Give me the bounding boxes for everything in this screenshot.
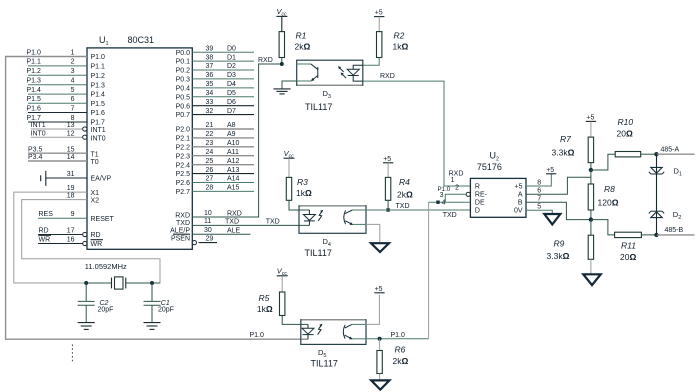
wire A14 stub (pin 27): [192, 182, 254, 184]
svg-text:TIL117: TIL117: [305, 102, 332, 112]
U1 pin 13 bubble: [83, 127, 87, 131]
svg-text:RE-: RE-: [475, 191, 488, 198]
wire crystal right to C1 junction: [126, 282, 160, 284]
svg-text:P1.0: P1.0: [91, 54, 106, 61]
wire EA/VP stub (pin 31): [46, 177, 87, 179]
resistor R9 body: [588, 235, 593, 259]
svg-text:P0.7: P0.7: [176, 112, 191, 119]
svg-text:P0.0: P0.0: [176, 50, 191, 57]
svg-text:R7: R7: [560, 134, 571, 144]
svg-text:X2: X2: [91, 198, 100, 205]
wire A10 stub (pin 23): [192, 146, 254, 148]
svg-text:P0.4: P0.4: [176, 86, 191, 93]
svg-text:2kΩ: 2kΩ: [397, 190, 413, 200]
capacitor C1: [151, 283, 153, 301]
svg-text:6: 6: [537, 188, 541, 195]
svg-text:20Ω: 20Ω: [617, 129, 633, 139]
svg-text:3: 3: [71, 68, 75, 75]
svg-text:WR: WR: [91, 241, 103, 248]
D4 phototransistor (right side): [344, 210, 346, 224]
svg-text:P1.4: P1.4: [27, 87, 42, 94]
svg-text:R4: R4: [399, 177, 410, 187]
svg-text:25: 25: [206, 158, 214, 165]
resistor R2 body: [377, 32, 382, 58]
node 485-A junction: [654, 152, 658, 156]
svg-text:75176: 75176: [477, 162, 502, 172]
wire 485-B to edge: [657, 234, 695, 236]
optocoupler D5 body (TIL117): [301, 320, 366, 345]
svg-text:+5: +5: [375, 10, 383, 17]
svg-text:30: 30: [204, 227, 212, 234]
svg-text:RXD: RXD: [175, 212, 190, 219]
svg-text:32: 32: [206, 108, 214, 115]
wire D0 stub (pin 39): [192, 51, 254, 53]
crystal symbol: [111, 278, 113, 289]
svg-text:RXD: RXD: [227, 211, 242, 218]
svg-text:P2.6: P2.6: [176, 180, 191, 187]
svg-text:D4: D4: [227, 81, 236, 88]
wire P1.6 stub (pin 7): [28, 112, 87, 114]
wire A13 stub (pin 26): [192, 173, 254, 175]
svg-text:5: 5: [71, 87, 75, 94]
D4 light bolt arrow: [318, 211, 322, 221]
svg-text:A14: A14: [227, 176, 240, 183]
ground triangle below D4: [371, 243, 389, 252]
svg-text:RESET: RESET: [91, 216, 115, 223]
ground below C1: [144, 322, 161, 324]
wire D7 stub (pin 32): [192, 114, 254, 116]
svg-text:2: 2: [455, 185, 459, 192]
wire P1.5 stub (pin 6): [28, 102, 87, 104]
svg-text:29: 29: [206, 235, 214, 242]
wire U2 pin 3 DE: [429, 201, 471, 203]
svg-text:T0: T0: [91, 159, 99, 166]
svg-text:16: 16: [67, 237, 75, 244]
overline for PSEN pin name: [173, 233, 190, 235]
svg-text:34: 34: [206, 90, 214, 97]
resistor R10 body (horizontal): [615, 152, 641, 157]
wire +5 to R4: [387, 163, 389, 178]
svg-text:P0.6: P0.6: [176, 103, 191, 110]
svg-text:3.3kΩ: 3.3kΩ: [547, 251, 570, 261]
svg-text:2kΩ: 2kΩ: [295, 42, 311, 52]
svg-text:0V: 0V: [514, 208, 523, 215]
svg-text:ALE/P: ALE/P: [170, 228, 190, 235]
svg-text:P1.5: P1.5: [27, 96, 42, 103]
svg-text:+5: +5: [375, 286, 383, 293]
svg-text:DE: DE: [475, 199, 485, 206]
svg-text:3.3kΩ: 3.3kΩ: [552, 148, 575, 158]
svg-text:RD: RD: [91, 232, 101, 239]
svg-text:11: 11: [204, 218, 211, 225]
wire node A to R8: [590, 170, 592, 184]
svg-text:TXD: TXD: [443, 212, 457, 219]
wire PSEN stub (pin 29): [199, 242, 217, 244]
wire ALE stub (pin 30): [192, 233, 250, 235]
wire D6 stub (pin 33): [192, 105, 254, 107]
EA/VP supply bar symbol (short bar): [40, 175, 42, 181]
svg-text:2: 2: [71, 59, 75, 66]
dotted continuation mark at bottom: [71, 345, 73, 363]
wire RD stub (pin 17): [38, 234, 83, 236]
wire node B to R9: [590, 220, 592, 236]
node RXD junction at R1: [280, 62, 284, 66]
svg-text:INT1: INT1: [31, 122, 46, 129]
svg-text:P1.2: P1.2: [27, 68, 42, 75]
svg-text:+5: +5: [546, 167, 554, 174]
wire R9 to ground triangle: [590, 259, 592, 274]
wire R2 down to D3 LED anode: [363, 58, 379, 66]
wire node A to R10: [591, 154, 615, 170]
svg-text:P1.1: P1.1: [91, 64, 106, 71]
resistor R8 body: [588, 184, 593, 210]
protection diode D2: [651, 210, 662, 212]
U1 pin 17 bubble: [83, 232, 87, 236]
wire A15 stub (pin 28): [192, 190, 254, 192]
svg-text:P0.2: P0.2: [176, 68, 191, 75]
svg-text:D1: D1: [227, 54, 236, 61]
svg-text:4: 4: [71, 78, 75, 85]
wire P1.4 stub (pin 5): [28, 93, 87, 95]
svg-text:D5: D5: [227, 90, 236, 97]
svg-text:WR: WR: [39, 237, 51, 244]
wire TXD from U1 pin 11 to optocoupler D4 LED: [192, 224, 309, 226]
wire between 485-A and 485-B through protection diodes: [656, 154, 658, 235]
svg-text:R9: R9: [554, 239, 565, 249]
svg-text:39: 39: [206, 45, 214, 52]
svg-text:INT1: INT1: [91, 127, 106, 134]
svg-text:80C31: 80C31: [128, 35, 155, 45]
IC U2 75176 body: [470, 178, 526, 217]
D4 LED (left side): [308, 210, 310, 215]
svg-text:+5: +5: [515, 184, 523, 191]
svg-text:R5: R5: [259, 293, 270, 303]
svg-text:A15: A15: [227, 185, 240, 192]
U1 pin 12 bubble: [83, 135, 87, 139]
wire node B to R11: [591, 220, 615, 235]
svg-text:P0.1: P0.1: [176, 59, 191, 66]
U1 pin 16 bubble: [83, 241, 87, 245]
wire D3 emitter to ground: [282, 81, 297, 89]
IC U1 80C31 body: [87, 48, 192, 249]
svg-text:TIL117: TIL117: [305, 248, 332, 258]
node X1/C2 junction: [84, 281, 88, 285]
wire 485-A to edge: [657, 153, 695, 155]
svg-text:TIL117: TIL117: [311, 359, 338, 369]
node P1.0 junction at R6: [378, 337, 382, 341]
svg-text:33: 33: [206, 99, 214, 106]
svg-text:P1.1: P1.1: [27, 59, 42, 66]
svg-text:A: A: [518, 191, 523, 198]
svg-text:INT0: INT0: [31, 130, 46, 137]
svg-text:RD: RD: [39, 228, 49, 235]
svg-text:1: 1: [451, 177, 455, 184]
wire D5 emitter output P1.0: [366, 338, 429, 340]
svg-text:P3.4: P3.4: [28, 154, 43, 161]
capacitor C2: [85, 283, 87, 301]
svg-text:1kΩ: 1kΩ: [296, 188, 312, 198]
protection diode D1: [651, 167, 662, 173]
svg-text:R11: R11: [621, 241, 636, 251]
wire R8 to node B: [590, 210, 592, 220]
svg-text:P1.0: P1.0: [250, 332, 265, 339]
wire INT0 stub (pin 12): [31, 136, 83, 138]
svg-text:P2.3: P2.3: [176, 153, 191, 160]
ground triangle at U2 pin 5: [544, 214, 560, 224]
wire TXD from D4 collector to U2 pin 4: [366, 209, 470, 211]
svg-text:20pF: 20pF: [98, 306, 114, 313]
svg-text:24: 24: [206, 149, 214, 156]
D3 phototransistor (left side): [297, 63, 311, 65]
svg-text:P0.3: P0.3: [176, 77, 191, 84]
svg-text:27: 27: [206, 176, 214, 183]
svg-text:2kΩ: 2kΩ: [393, 356, 409, 366]
svg-text:1kΩ: 1kΩ: [393, 42, 409, 52]
svg-text:R6: R6: [395, 345, 406, 355]
svg-text:D7: D7: [227, 108, 236, 115]
wire Vcc to R3: [288, 158, 290, 177]
svg-text:1: 1: [71, 49, 75, 56]
EA/VP supply bar symbol (tall bar): [45, 171, 47, 186]
wire RES stub (pin 9): [38, 217, 87, 219]
wire U2 pin 8 to +5: [526, 174, 551, 186]
wire P3.5 stub (pin 15): [28, 152, 87, 154]
ground triangle below R6: [371, 380, 389, 389]
svg-text:P1.3: P1.3: [91, 82, 106, 89]
svg-text:X1: X1: [91, 190, 100, 197]
wire R4 to TXD line: [387, 200, 389, 210]
svg-text:28: 28: [206, 185, 214, 192]
svg-text:T1: T1: [91, 151, 99, 158]
svg-text:R8: R8: [604, 184, 615, 194]
svg-text:5: 5: [537, 203, 541, 210]
wire R11 to 485-B terminal: [641, 234, 656, 236]
svg-text:7: 7: [71, 105, 75, 112]
svg-text:10: 10: [204, 210, 212, 217]
svg-text:P1.0: P1.0: [27, 49, 42, 56]
wire D3 stub (pin 36): [192, 78, 254, 80]
svg-text:TXD: TXD: [225, 219, 239, 226]
overline for WR pin name: [91, 239, 104, 241]
svg-text:14: 14: [67, 154, 75, 161]
svg-text:485-A: 485-A: [661, 147, 680, 154]
svg-text:P2.7: P2.7: [176, 189, 191, 196]
svg-text:EA/VP: EA/VP: [91, 176, 112, 183]
D5 LED (left side): [307, 324, 309, 328]
svg-text:P2.4: P2.4: [176, 162, 191, 169]
svg-text:P1.7: P1.7: [91, 120, 106, 127]
svg-text:P2.0: P2.0: [176, 127, 191, 134]
svg-text:15: 15: [67, 146, 75, 153]
svg-text:TXD: TXD: [176, 220, 190, 227]
wire A11 stub (pin 24): [192, 155, 254, 157]
resistor R11 body (horizontal): [615, 232, 642, 237]
wire P1.2 stub (pin 3): [28, 74, 87, 76]
D3 light arrows: [339, 67, 344, 72]
svg-text:P2.1: P2.1: [176, 136, 191, 143]
svg-text:3: 3: [440, 192, 444, 199]
svg-text:31: 31: [67, 171, 75, 178]
svg-text:INT0: INT0: [91, 135, 106, 142]
wire D5 collector to +5: [366, 295, 379, 325]
svg-text:P0.5: P0.5: [176, 94, 191, 101]
wire U2 pin 6 A to termination network: [526, 177, 591, 194]
svg-text:TXD: TXD: [396, 203, 410, 210]
wire RXD output from D3 to U2 pin 1: [363, 81, 471, 186]
wire R3 to D4 LED anode: [289, 200, 309, 210]
wire +5 to R7: [590, 121, 592, 137]
svg-text:20Ω: 20Ω: [620, 252, 636, 262]
svg-text:38: 38: [206, 54, 214, 61]
wire D4 emitter to ground triangle: [366, 224, 380, 242]
svg-text:A10: A10: [227, 140, 240, 147]
resistor R4 body: [385, 177, 390, 200]
wire INT1 stub (pin 13): [31, 128, 83, 130]
svg-text:A12: A12: [227, 158, 240, 165]
wire +5 to R2: [378, 17, 380, 32]
svg-text:R2: R2: [394, 31, 405, 41]
svg-text:23: 23: [206, 140, 214, 147]
svg-text:R3: R3: [297, 177, 308, 187]
svg-text:21: 21: [206, 122, 214, 129]
svg-text:4: 4: [442, 200, 446, 207]
svg-text:A9: A9: [227, 131, 236, 138]
svg-text:8: 8: [71, 115, 75, 122]
node RE/DE tie junction: [436, 201, 439, 204]
wire Vcc to R5: [281, 276, 283, 292]
node A junction (R7/R8/R10): [589, 168, 593, 172]
D3 LED (right side): [353, 65, 363, 69]
svg-text:A13: A13: [227, 167, 240, 174]
wire R5 to D5 LED anode: [282, 316, 308, 325]
svg-text:11.0592MHz: 11.0592MHz: [85, 262, 127, 271]
resistor R3 body: [286, 177, 291, 200]
wire D4 stub (pin 35): [192, 87, 254, 89]
svg-text:P1.5: P1.5: [91, 101, 106, 108]
wire WR stub (pin 16): [38, 243, 83, 245]
wire P1.7 stub (pin 8): [28, 121, 87, 123]
D5 light bolt arrow: [318, 325, 322, 335]
node B junction (R8/R9/R11): [589, 217, 593, 221]
wire D5 stub (pin 34): [192, 96, 254, 98]
svg-text:13: 13: [67, 122, 75, 129]
wire R6 to ground triangle: [379, 374, 381, 381]
wire P1.0 up to U2 pins 2-3: [428, 202, 430, 339]
wire D2 stub (pin 37): [192, 69, 254, 71]
svg-text:1kΩ: 1kΩ: [257, 304, 273, 314]
wire U2 pin 2 tie to pin 3: [445, 194, 466, 202]
svg-text:485-B: 485-B: [665, 227, 684, 234]
wire P1.0 long net from U1 pin 1 down left side to bottom: [6, 57, 308, 340]
svg-text:20pF: 20pF: [158, 306, 174, 313]
svg-text:6: 6: [71, 96, 75, 103]
svg-text:18: 18: [67, 193, 75, 200]
svg-text:P1.7: P1.7: [27, 115, 42, 122]
wire Vcc to R1: [281, 16, 283, 31]
svg-text:R1: R1: [296, 31, 307, 41]
svg-text:35: 35: [206, 81, 214, 88]
svg-text:RXD: RXD: [258, 57, 273, 64]
node 485-B junction: [654, 233, 658, 237]
ground triangle below R9: [583, 274, 600, 285]
svg-text:P1.4: P1.4: [91, 92, 106, 99]
wire R1 to RXD node: [281, 58, 283, 65]
svg-text:RXD: RXD: [380, 73, 395, 80]
resistor R6 body: [379, 339, 381, 351]
resistor R1 body: [279, 32, 284, 58]
svg-text:D6: D6: [227, 99, 236, 106]
svg-text:19: 19: [67, 185, 75, 192]
ground symbol below D3: [273, 88, 290, 90]
wire P1.1 stub (pin 2): [28, 65, 87, 67]
svg-text:36: 36: [206, 72, 214, 79]
ground below C2: [78, 322, 95, 324]
svg-text:TXD: TXD: [266, 219, 280, 226]
svg-text:P1.3: P1.3: [27, 78, 42, 85]
svg-text:B: B: [518, 199, 523, 206]
wire R10 to 485-A terminal: [641, 153, 657, 155]
svg-text:P1.6: P1.6: [91, 110, 106, 117]
svg-text:P1.2: P1.2: [91, 73, 106, 80]
wire P3.4 stub (pin 14): [28, 160, 87, 162]
svg-text:+5: +5: [586, 115, 594, 122]
svg-text:A8: A8: [227, 122, 236, 129]
optocoupler D3 body (TIL117): [297, 60, 363, 85]
svg-text:D: D: [475, 208, 480, 215]
svg-text:37: 37: [206, 63, 214, 70]
wire A12 stub (pin 25): [192, 164, 254, 166]
svg-text:7: 7: [537, 196, 541, 203]
svg-text:R: R: [475, 184, 480, 191]
resistor R5 body: [280, 292, 285, 316]
svg-text:17: 17: [67, 228, 75, 235]
U2 pin 2 bubble (RE): [466, 192, 470, 196]
svg-text:+5: +5: [383, 156, 391, 163]
wire U2 pin 7 B to termination network: [526, 202, 591, 219]
svg-text:P3.5: P3.5: [28, 146, 43, 153]
svg-text:120Ω: 120Ω: [598, 198, 619, 208]
node TXD junction at R4: [386, 208, 389, 211]
wire U2 pin 5 0V to ground: [526, 210, 552, 213]
overline for WR net label: [39, 234, 52, 236]
svg-text:RES: RES: [39, 211, 54, 218]
svg-text:RXD: RXD: [449, 171, 464, 178]
resistor R7 body: [588, 137, 593, 163]
wire X1 from pin 19 to crystal: [14, 192, 87, 283]
svg-text:D3: D3: [227, 72, 236, 79]
wire D1 stub (pin 38): [192, 60, 254, 62]
svg-text:9: 9: [71, 211, 75, 218]
svg-text:A11: A11: [227, 149, 239, 156]
U1 pin 29 bubble (PSEN): [192, 241, 196, 245]
D5 phototransistor (right side): [343, 325, 345, 339]
wire crystal left to C2 junction: [86, 282, 111, 284]
svg-text:PSEN: PSEN: [171, 235, 190, 242]
svg-text:ALE: ALE: [227, 227, 241, 234]
svg-text:P2.2: P2.2: [176, 144, 191, 151]
node X2/C1 junction: [150, 281, 154, 285]
svg-text:P1.6: P1.6: [27, 105, 42, 112]
wire RXD from U1 pin 10 up to optocoupler D3 input: [192, 64, 281, 217]
svg-text:D0: D0: [227, 45, 236, 52]
svg-text:D2: D2: [227, 63, 236, 70]
optocoupler D4 body (TIL117): [299, 206, 366, 234]
wire A9 stub (pin 22): [192, 137, 254, 139]
wire A8 stub (pin 21): [192, 128, 254, 130]
svg-text:22: 22: [206, 131, 214, 138]
svg-text:P2.5: P2.5: [176, 171, 191, 178]
svg-text:R10: R10: [618, 117, 634, 127]
